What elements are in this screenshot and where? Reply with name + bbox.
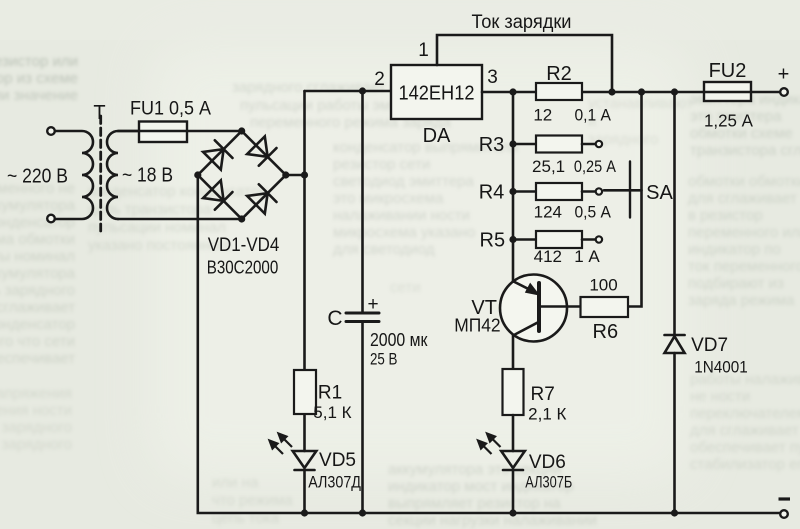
svg-text:ности зарядного: ности зарядного	[0, 419, 72, 436]
svg-text:переключателем напряжения: переключателем напряжения	[0, 385, 72, 402]
svg-text:ток переменного: ток переменного	[688, 258, 800, 275]
svg-text:пульсации номинал: пульсации номинал	[88, 219, 226, 236]
svg-text:0,25 А: 0,25 А	[574, 157, 617, 176]
svg-text:АЛ307Д: АЛ307Д	[308, 473, 361, 492]
svg-text:налаживании ности: налаживании ности	[333, 207, 470, 224]
svg-text:412: 412	[534, 247, 562, 266]
svg-text:1 А: 1 А	[574, 247, 600, 266]
svg-text:12: 12	[533, 106, 552, 125]
svg-text:2,1 К: 2,1 К	[528, 405, 566, 424]
svg-text:в резистор: в резистор	[688, 207, 763, 224]
svg-text:нагрузки при аккумулятора: нагрузки при аккумулятора	[0, 265, 76, 282]
svg-text:R3: R3	[479, 134, 505, 156]
svg-text:R2: R2	[546, 63, 572, 85]
svg-text:для сглаживает: для сглаживает	[690, 422, 799, 439]
svg-text:микросхема указано: микросхема указано	[333, 224, 475, 241]
svg-text:что режима: что режима	[212, 492, 293, 509]
svg-text:стабилизатор режима обмотки: стабилизатор режима обмотки	[0, 231, 75, 248]
svg-text:светодиод эмиттера: светодиод эмиттера	[333, 173, 475, 190]
svg-text:+: +	[367, 294, 378, 315]
svg-text:аккумулятора работы номинал: аккумулятора работы номинал	[0, 248, 75, 265]
svg-text:обмотки обмотки: обмотки обмотки	[688, 173, 800, 190]
svg-text:R7: R7	[531, 384, 555, 405]
svg-text:R4: R4	[479, 182, 505, 204]
svg-text:обеспечивает резистор или: обеспечивает резистор или	[0, 53, 78, 70]
svg-text:секции нагрузки налаживании: секции нагрузки налаживании	[388, 512, 597, 529]
svg-text:124: 124	[534, 202, 562, 221]
svg-text:для светодиод: для светодиод	[333, 241, 435, 258]
svg-text:0,1 А: 0,1 А	[574, 106, 611, 125]
svg-text:0,5 А: 0,5 А	[574, 202, 611, 221]
svg-text:~ 18 В: ~ 18 В	[122, 165, 173, 187]
svg-text:индикатор из схеме: индикатор из схеме	[0, 70, 78, 87]
svg-text:АЛ307Б: АЛ307Б	[525, 473, 572, 492]
svg-text:не или значение: не или значение	[0, 87, 78, 104]
svg-text:напряжения обеспечивает обеспе: напряжения обеспечивает обеспечивает	[0, 350, 75, 367]
svg-text:на работы конденсатор: на работы конденсатор	[0, 316, 75, 333]
svg-text:это микросхема: это микросхема	[333, 190, 444, 207]
svg-text:секции на аккумулятора: секции на аккумулятора	[0, 197, 76, 214]
svg-text:индикатор по: индикатор по	[688, 241, 781, 258]
svg-text:не ности: не ности	[690, 388, 750, 405]
svg-text:~ 220 В: ~ 220 В	[7, 166, 68, 188]
svg-text:VD6: VD6	[529, 452, 566, 473]
svg-text:FU2: FU2	[709, 60, 747, 82]
svg-text:VD5: VD5	[319, 450, 356, 471]
svg-text:25,1: 25,1	[532, 157, 565, 176]
svg-text:Т: Т	[93, 102, 105, 124]
svg-text:2000 мк: 2000 мк	[370, 330, 428, 350]
svg-text:1N4001: 1N4001	[694, 358, 748, 377]
svg-text:для сглаживает: для сглаживает	[688, 190, 797, 207]
svg-text:заряда режима: заряда режима	[688, 292, 795, 309]
svg-text:25 В: 25 В	[370, 350, 398, 369]
svg-text:обеспечивает пульсации: обеспечивает пульсации	[690, 439, 800, 456]
svg-text:ности быть зарядного: ности быть зарядного	[0, 282, 75, 299]
svg-text:SA: SA	[646, 182, 673, 204]
svg-text:R5: R5	[480, 230, 506, 252]
svg-text:В30С2000: В30С2000	[207, 258, 279, 278]
svg-text:DA: DA	[423, 125, 451, 147]
svg-text:1: 1	[418, 40, 429, 61]
svg-text:сети: сети	[390, 279, 421, 296]
svg-text:транзистора сглаживает: транзистора сглаживает	[690, 142, 800, 159]
svg-text:1,25 А: 1,25 А	[704, 111, 753, 131]
svg-text:МП42: МП42	[454, 316, 500, 336]
svg-text:2: 2	[374, 69, 385, 90]
svg-text:5,1 К: 5,1 К	[313, 403, 351, 422]
svg-text:C: C	[327, 307, 342, 330]
svg-text:подбирают из: подбирают из	[688, 275, 784, 292]
svg-text:напряжения ности: напряжения ности	[0, 402, 72, 419]
svg-text:заряда включен сглаживает: заряда включен сглаживает	[0, 299, 75, 316]
svg-text:Ток зарядки: Ток зарядки	[472, 12, 572, 33]
svg-text:FU1 0,5 А: FU1 0,5 А	[130, 99, 211, 120]
svg-text:142ЕН12: 142ЕН12	[399, 83, 475, 105]
svg-text:на зарядного: на зарядного	[0, 436, 72, 453]
svg-text:R1: R1	[318, 383, 342, 404]
svg-text:резистор сети: резистор сети	[333, 156, 430, 173]
svg-text:+: +	[778, 64, 790, 86]
svg-text:его что сети: его что сети	[0, 333, 75, 350]
svg-text:значение в конденсатор: значение в конденсатор	[0, 214, 75, 231]
svg-text:3: 3	[487, 67, 498, 88]
svg-text:VD1-VD4: VD1-VD4	[208, 235, 280, 256]
svg-text:VD7: VD7	[691, 335, 728, 356]
svg-text:или на: или на	[212, 474, 259, 491]
svg-text:100: 100	[589, 276, 617, 295]
svg-text:переменного или: переменного или	[688, 224, 800, 241]
svg-text:переключателем тока: переключателем тока	[690, 405, 800, 422]
svg-text:стабилизатор его: стабилизатор его	[690, 456, 800, 473]
svg-text:выпрямляет резистор на: выпрямляет резистор на	[388, 495, 561, 512]
svg-text:R6: R6	[593, 321, 619, 343]
